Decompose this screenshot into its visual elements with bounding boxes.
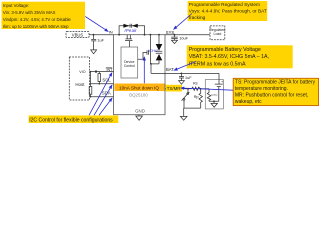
svg-text:Vin: 3-5.9V with 25Vin MAX: Vin: 3-5.9V with 25Vin MAX bbox=[3, 10, 56, 15]
node SYS cap bbox=[174, 34, 176, 36]
arrow input note to IN bbox=[85, 17, 108, 32]
svg-text:TS: Programmable JEITA for bat: TS: Programmable JEITA for battery bbox=[235, 80, 316, 86]
node MR bbox=[187, 88, 189, 90]
pin TS/MR highlighted bbox=[166, 85, 182, 92]
regulated load block bbox=[210, 26, 225, 40]
node BAT cap bbox=[181, 73, 183, 75]
device control block bbox=[121, 47, 138, 78]
ground bbox=[136, 116, 143, 120]
svg-text:IN: IN bbox=[109, 31, 113, 35]
diode D1 arrow bbox=[123, 24, 129, 28]
node IN cap bbox=[93, 34, 95, 36]
svg-text:tracking: tracking bbox=[189, 15, 206, 21]
node VIO bbox=[95, 70, 97, 72]
diode D1 bar bbox=[129, 24, 131, 28]
svg-text:Rs: Rs bbox=[193, 82, 198, 86]
capacitor CIN bbox=[91, 35, 96, 50]
connector VBUS bbox=[66, 32, 89, 38]
svg-text:Host: Host bbox=[75, 82, 85, 87]
node Rp bbox=[200, 88, 202, 90]
callout: I2C note bar bbox=[29, 116, 119, 124]
blue current labels bbox=[124, 28, 158, 53]
wire BAT bbox=[165, 72, 219, 74]
svg-text:BQ25180: BQ25180 bbox=[129, 92, 148, 97]
ground bbox=[179, 81, 185, 85]
transistor Q2 channel bbox=[150, 35, 159, 64]
battery cell BT1 bbox=[209, 73, 223, 101]
svg-text:Load: Load bbox=[214, 32, 222, 36]
svg-text:MR: Pushbutton control for res: MR: Pushbutton control for reset, bbox=[235, 93, 308, 99]
ground bbox=[211, 101, 217, 107]
arrow bat note to BAT bbox=[174, 62, 196, 71]
schematic lines bbox=[66, 24, 225, 121]
diode D2 arrow bbox=[132, 24, 138, 28]
node Q2 source bbox=[150, 63, 152, 65]
wire INT VIO rail bbox=[90, 71, 114, 73]
svg-text:Vindpm: 4.2V, 4.5V, 4.7V or Di: Vindpm: 4.2V, 4.5V, 4.7V or Disable bbox=[3, 17, 72, 22]
thermistor NTC bbox=[207, 89, 210, 102]
callout: battery voltage note bbox=[187, 45, 293, 68]
resistor R1 pullup SDA bbox=[90, 72, 92, 97]
svg-text:Vsys: 4.4-4.9V, Pass through,: Vsys: 4.4-4.9V, Pass through, or BAT bbox=[189, 8, 267, 14]
arrow ts note to TS/MR bbox=[181, 88, 234, 90]
svg-text:temperature monitoring.: temperature monitoring. bbox=[235, 86, 288, 92]
pushbutton MR bbox=[182, 89, 190, 117]
svg-text:NTC: NTC bbox=[211, 93, 218, 97]
node D3 top bbox=[158, 34, 160, 36]
schematic labels bbox=[72, 28, 226, 113]
svg-text:INT: INT bbox=[107, 68, 114, 72]
svg-text:VBAT: 3.5-4.65V, ICHG 5mA – 1A: VBAT: 3.5-4.65V, ICHG 5mA – 1A, bbox=[189, 54, 269, 60]
node pack gnd bbox=[213, 100, 215, 102]
blue arrows bbox=[85, 14, 233, 116]
svg-text:I2C Control for flexible confi: I2C Control for flexible configurations bbox=[29, 117, 113, 123]
svg-text:Ilim: up to 1100mA with 50mA s: Ilim: up to 1100mA with 50mA step bbox=[3, 24, 69, 29]
resistor Rs bbox=[192, 87, 201, 90]
svg-text:VIO: VIO bbox=[79, 70, 85, 74]
diode D3 arrow bbox=[156, 44, 163, 51]
arrow i2c note to SDA bbox=[99, 98, 112, 115]
ground bbox=[180, 116, 187, 120]
wire SDA bbox=[90, 96, 114, 98]
transistor Q1 input FET bbox=[125, 35, 133, 47]
wire diode bridge bbox=[119, 26, 144, 35]
ground bbox=[91, 50, 97, 54]
node Q2 drain bbox=[150, 34, 152, 36]
svg-text:Input Voltage:: Input Voltage: bbox=[3, 3, 29, 8]
wire IN bbox=[89, 34, 114, 36]
svg-text:Programmable Regulated System: Programmable Regulated System bbox=[189, 2, 260, 8]
diode D3 body bbox=[156, 35, 163, 52]
svg-text:GND: GND bbox=[135, 108, 145, 113]
wire TS/MR bbox=[165, 88, 209, 90]
resistor R2 pullup SCL bbox=[98, 72, 100, 84]
svg-text:10nA Shut down IQ: 10nA Shut down IQ bbox=[119, 86, 159, 91]
svg-text:SYS: SYS bbox=[166, 30, 175, 35]
node R1 bottom bbox=[90, 96, 92, 98]
capacitor CBAT bbox=[179, 73, 184, 80]
transistor Q2 battery FET gate lead bbox=[138, 50, 149, 59]
diode D4 body bbox=[156, 53, 163, 64]
svg-text:wakeup, etc: wakeup, etc bbox=[235, 99, 262, 105]
pin GND stub bbox=[138, 115, 140, 116]
svg-text:ITERM as low as 0.5mA: ITERM as low as 0.5mA bbox=[189, 61, 246, 67]
arrow i2c note to INT bbox=[89, 73, 112, 116]
wire ground rail bbox=[184, 107, 201, 109]
svg-text:VBUS: VBUS bbox=[72, 32, 84, 37]
callout: input voltage note bbox=[2, 2, 86, 29]
node bridge right bbox=[144, 34, 146, 36]
node R2 bottom bbox=[99, 83, 101, 85]
filled diodes bbox=[123, 24, 162, 61]
wire BAT inside bbox=[151, 64, 165, 74]
arrow i2c note to SCL bbox=[94, 85, 112, 115]
svg-text:BAT: BAT bbox=[166, 67, 174, 72]
arrow sys note to SYS bbox=[174, 14, 193, 30]
svg-text:10uF: 10uF bbox=[179, 36, 188, 40]
IC U1 BQ25180 outline bbox=[114, 35, 166, 115]
host block bbox=[69, 57, 89, 100]
svg-text:IPeak: IPeak bbox=[124, 28, 137, 33]
diode D2 bar bbox=[131, 24, 133, 28]
svg-text:1uF: 1uF bbox=[185, 76, 192, 80]
wire SCL bbox=[90, 83, 114, 85]
svg-text:TS/MR: TS/MR bbox=[167, 86, 181, 91]
svg-text:1uF: 1uF bbox=[97, 38, 104, 42]
callout: regulated system note bbox=[188, 1, 268, 21]
svg-text:Rp: Rp bbox=[194, 95, 199, 99]
svg-text:Control: Control bbox=[124, 64, 135, 68]
resistor Rp bbox=[199, 89, 202, 108]
battery pack outline bbox=[205, 80, 223, 109]
junction dots bbox=[90, 34, 215, 102]
diode D4 arrow bbox=[156, 54, 163, 60]
ground bbox=[172, 40, 178, 43]
pin INT overline bbox=[106, 67, 112, 69]
capacitor CSYS bbox=[171, 35, 177, 41]
arrow iq note up bbox=[143, 57, 145, 84]
node bridge left bbox=[118, 34, 120, 36]
svg-text:Programmable Battery Voltage: Programmable Battery Voltage bbox=[189, 47, 261, 53]
callout: shutdown IQ note bbox=[114, 84, 165, 92]
callout: TS/MR note bbox=[233, 78, 318, 105]
wire SYS bbox=[165, 34, 210, 36]
node R1 top bbox=[90, 71, 92, 73]
svg-text:ICHG: ICHG bbox=[148, 48, 158, 53]
